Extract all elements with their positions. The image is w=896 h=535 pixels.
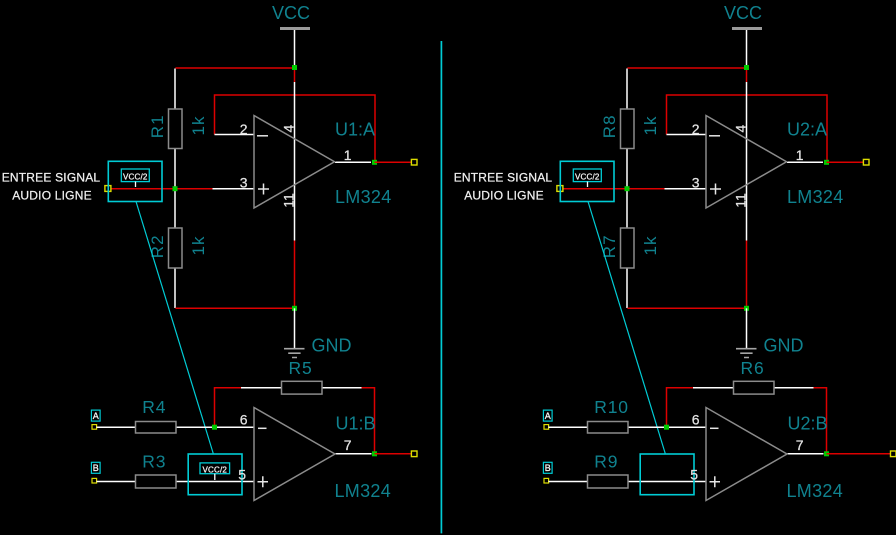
svg-text:VCC/2: VCC/2 bbox=[203, 466, 228, 475]
node output U1:B bbox=[372, 451, 377, 456]
wire pin11 net (right) bbox=[746, 241, 748, 309]
svg-text:2: 2 bbox=[692, 121, 700, 137]
svg-text:LM324: LM324 bbox=[787, 481, 844, 501]
pin output terminal U2:B bbox=[891, 451, 896, 457]
node output U2:A bbox=[824, 160, 829, 165]
power flag VCC (left) bbox=[272, 3, 310, 30]
op-amp U2:B bbox=[690, 408, 843, 501]
resistor R4 bbox=[97, 397, 255, 433]
svg-text:LM324: LM324 bbox=[335, 187, 392, 207]
svg-text:B: B bbox=[545, 463, 551, 473]
node VCC junction bbox=[292, 65, 297, 70]
svg-text:5: 5 bbox=[690, 467, 698, 483]
node GND junction (right) bbox=[744, 306, 749, 311]
svg-text:5: 5 bbox=[238, 467, 246, 483]
wire pin11 net bbox=[294, 241, 296, 309]
svg-text:4: 4 bbox=[733, 125, 749, 133]
wire output net U1:B bbox=[375, 453, 412, 455]
svg-text:R4: R4 bbox=[142, 397, 166, 417]
label VCC/2 box (top right) bbox=[560, 161, 614, 201]
svg-text:U2:A: U2:A bbox=[787, 119, 827, 139]
wire feedback loop U2:A bbox=[667, 95, 828, 162]
resistor R10 bbox=[549, 397, 707, 433]
svg-text:1: 1 bbox=[344, 147, 352, 163]
svg-text:R6: R6 bbox=[741, 358, 765, 378]
svg-text:U1:A: U1:A bbox=[335, 119, 375, 139]
svg-text:GND: GND bbox=[764, 336, 804, 356]
resistor R5 bbox=[241, 358, 362, 394]
svg-text:7: 7 bbox=[344, 437, 352, 453]
wire VCC stub bbox=[294, 30, 296, 66]
svg-text:R5: R5 bbox=[289, 358, 313, 378]
svg-text:7: 7 bbox=[796, 437, 804, 453]
wire R5 right net bbox=[362, 388, 375, 454]
op-amp U1:B bbox=[238, 408, 391, 501]
port A (left) bbox=[91, 410, 100, 429]
wire pin4 net (right) bbox=[746, 67, 748, 82]
label box (bottom right, empty) bbox=[640, 454, 694, 495]
label VCC/2 box (bottom left) bbox=[188, 454, 242, 495]
resistor R1 bbox=[148, 69, 208, 189]
svg-text:11: 11 bbox=[281, 193, 297, 208]
text ENTREE SIGNAL AUDIO LIGNE (left) bbox=[2, 171, 101, 203]
svg-text:R8: R8 bbox=[600, 114, 619, 138]
pin output terminal U1:B bbox=[411, 451, 417, 457]
resistor R6 bbox=[693, 358, 814, 394]
node VCC junction (right) bbox=[744, 65, 749, 70]
port B (right) bbox=[543, 462, 552, 483]
svg-text:R7: R7 bbox=[600, 234, 619, 258]
wire VCC net horizontal (right) bbox=[627, 67, 746, 69]
svg-text:R2: R2 bbox=[148, 234, 167, 258]
node output U2:B bbox=[824, 451, 829, 456]
wire output net U2:B bbox=[827, 453, 891, 455]
wire VCC stub (right) bbox=[746, 30, 748, 66]
svg-text:B: B bbox=[93, 463, 99, 473]
pin input terminal (right) bbox=[557, 186, 563, 192]
node pin6 junction bbox=[212, 425, 217, 430]
node input junction (right) bbox=[625, 186, 630, 191]
svg-text:1: 1 bbox=[796, 147, 804, 163]
wire output net U1:A bbox=[375, 161, 412, 163]
ground GND (right) bbox=[736, 308, 804, 357]
node pin6 junction (right) bbox=[664, 425, 669, 430]
svg-text:LM324: LM324 bbox=[335, 481, 392, 501]
wire input net bbox=[111, 188, 213, 190]
svg-text:A: A bbox=[93, 411, 99, 421]
svg-text:6: 6 bbox=[240, 411, 248, 427]
svg-text:AUDIO LIGNE: AUDIO LIGNE bbox=[12, 189, 92, 203]
svg-text:ENTREE SIGNAL: ENTREE SIGNAL bbox=[2, 171, 101, 185]
svg-text:3: 3 bbox=[692, 175, 700, 191]
port A (right) bbox=[543, 410, 552, 429]
svg-text:R1: R1 bbox=[148, 114, 167, 138]
svg-text:R3: R3 bbox=[142, 451, 166, 471]
wire R6 right net bbox=[814, 388, 827, 454]
wire R5 left net bbox=[215, 388, 242, 428]
divider line between channels bbox=[440, 41, 442, 533]
svg-text:2: 2 bbox=[240, 121, 248, 137]
svg-text:A: A bbox=[545, 411, 551, 421]
op-amp U2:A bbox=[665, 82, 844, 241]
wire cyan link to box (bottom right) bbox=[588, 202, 665, 455]
label VCC/2 box (top) bbox=[108, 161, 162, 201]
text ENTREE SIGNAL AUDIO LIGNE (right) bbox=[454, 171, 553, 203]
svg-text:VCC: VCC bbox=[724, 3, 762, 23]
wire bottom net bbox=[175, 307, 294, 309]
svg-text:GND: GND bbox=[312, 336, 352, 356]
port B (left) bbox=[91, 462, 100, 483]
svg-text:6: 6 bbox=[692, 411, 700, 427]
wire input net (right) bbox=[563, 188, 665, 190]
svg-text:1k: 1k bbox=[189, 116, 208, 136]
svg-text:ENTREE SIGNAL: ENTREE SIGNAL bbox=[454, 171, 553, 185]
resistor R2 bbox=[148, 189, 208, 308]
resistor R9 bbox=[549, 451, 707, 488]
wire VCC net horizontal bbox=[175, 67, 294, 69]
svg-text:R9: R9 bbox=[594, 451, 618, 471]
svg-text:1k: 1k bbox=[641, 116, 660, 136]
svg-text:1k: 1k bbox=[641, 236, 660, 256]
svg-text:3: 3 bbox=[240, 175, 248, 191]
svg-text:U2:B: U2:B bbox=[788, 413, 828, 433]
wire cyan link to VCC/2 (bottom) bbox=[136, 202, 213, 455]
pin output terminal U1:A bbox=[411, 159, 417, 165]
svg-text:VCC/2: VCC/2 bbox=[123, 173, 148, 182]
wire pin4 net bbox=[294, 67, 296, 82]
svg-text:R10: R10 bbox=[594, 397, 629, 417]
wire bottom net (right) bbox=[627, 307, 746, 309]
node output U1:A bbox=[372, 160, 377, 165]
node GND junction bbox=[292, 306, 297, 311]
svg-text:AUDIO LIGNE: AUDIO LIGNE bbox=[464, 189, 544, 203]
svg-text:LM324: LM324 bbox=[787, 187, 844, 207]
svg-text:VCC: VCC bbox=[272, 3, 310, 23]
power flag VCC (right) bbox=[724, 3, 762, 30]
op-amp U1:A bbox=[213, 82, 392, 241]
resistor R3 bbox=[97, 451, 255, 488]
pin input terminal bbox=[105, 186, 111, 192]
svg-text:VCC/2: VCC/2 bbox=[575, 173, 600, 182]
svg-text:11: 11 bbox=[733, 193, 749, 208]
svg-text:U1:B: U1:B bbox=[336, 413, 376, 433]
wire feedback loop U1:A bbox=[215, 95, 376, 162]
resistor R8 bbox=[600, 69, 660, 189]
wire R6 left net bbox=[667, 388, 694, 428]
resistor R7 bbox=[600, 189, 660, 308]
svg-text:1k: 1k bbox=[189, 236, 208, 256]
ground GND (left) bbox=[284, 308, 352, 357]
pin output terminal U2:A bbox=[863, 159, 869, 165]
node input junction bbox=[173, 186, 178, 191]
svg-text:4: 4 bbox=[281, 125, 297, 133]
wire output net U2:A bbox=[827, 161, 864, 163]
